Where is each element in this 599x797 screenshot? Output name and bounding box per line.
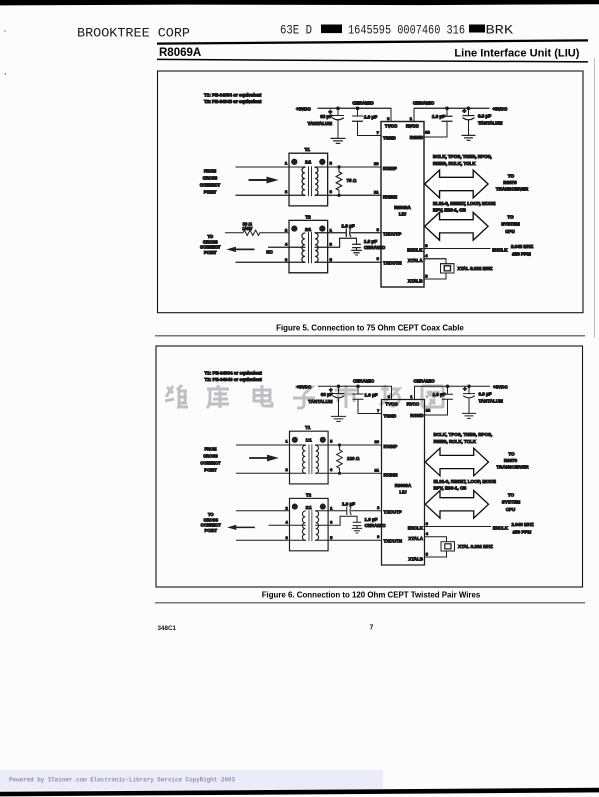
svg-text:75 Ω: 75 Ω (347, 178, 357, 183)
svg-text:NC: NC (266, 249, 273, 254)
svg-text:T1: PE-64934 or equivalent: T1: PE-64934 or equivalent (205, 370, 263, 375)
svg-text:Figure 6. Connection to 120 O: Figure 6. Connection to 120 Ohm CEPT Twi… (262, 590, 481, 599)
svg-text:120 Ω: 120 Ω (347, 456, 360, 461)
svg-text:Figure 5. Connection to 75 Oh: Figure 5. Connection to 75 Ohm CEPT Coax… (276, 323, 464, 332)
svg-text:1645595 0007460 316: 1645595 0007460 316 (348, 23, 465, 38)
svg-text:Powered by ICminer.com Electro: Powered by ICminer.com Electronic-Librar… (9, 777, 235, 784)
svg-text:BROOKTREE CORP: BROOKTREE CORP (77, 25, 190, 40)
svg-text:348C1: 348C1 (158, 625, 177, 632)
svg-text:R8069A: R8069A (159, 47, 201, 59)
svg-text:1/4W: 1/4W (242, 226, 253, 231)
svg-text:7: 7 (370, 625, 374, 632)
svg-text:BRK: BRK (486, 23, 514, 38)
svg-text:63E D: 63E D (280, 23, 312, 38)
svg-text:T1: PE-64954 or equivalent: T1: PE-64954 or equivalent (204, 92, 262, 97)
svg-text:Line Interface Unit (LIU): Line Interface Unit (LIU) (454, 48, 579, 60)
